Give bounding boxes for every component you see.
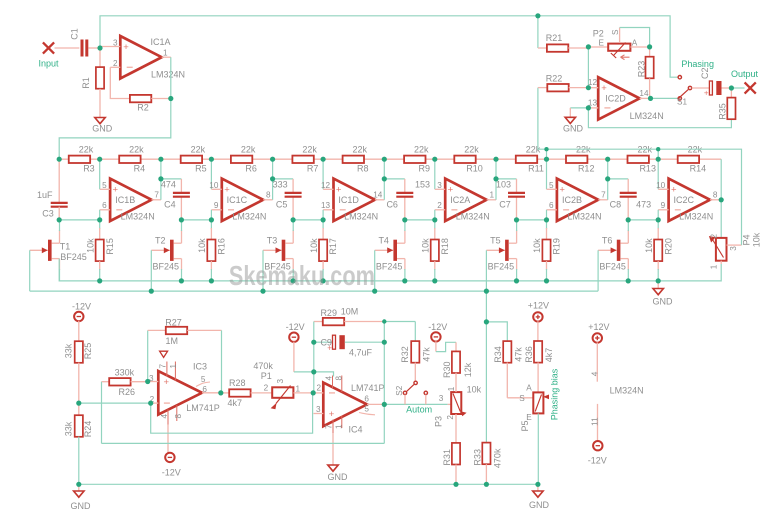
- svg-text:LM324N: LM324N: [456, 212, 490, 222]
- wire plus input drop stage 3: [322, 210, 324, 220]
- node rail A source T4: [402, 278, 407, 283]
- svg-text:6: 6: [364, 394, 369, 403]
- resistor R15 10k: [96, 220, 104, 281]
- node bias tap: [484, 319, 489, 324]
- resistor R23: [646, 47, 654, 98]
- wire minus input drop stage 1: [99, 159, 101, 189]
- svg-text:R4: R4: [134, 164, 146, 174]
- resistor R21: [538, 16, 589, 52]
- svg-text:R16: R16: [217, 238, 227, 255]
- node cap node right 2: [209, 217, 214, 222]
- svg-text:2: 2: [113, 59, 118, 68]
- svg-text:GND: GND: [328, 472, 349, 482]
- wire cap tap stage 5: [608, 179, 629, 220]
- node rail A source T6: [626, 278, 631, 283]
- wire minus input drop stage 5: [546, 159, 548, 189]
- potentiometer P2: [588, 28, 649, 60]
- node ground rail R31: [453, 482, 458, 487]
- node M4: [432, 157, 437, 162]
- capacitor C7: [508, 193, 525, 197]
- node cap node right 6: [656, 217, 661, 222]
- svg-text:1: 1: [169, 363, 178, 368]
- node O4: [493, 157, 498, 162]
- transistor T4 BF245: [393, 220, 405, 281]
- svg-text:1uF: 1uF: [37, 190, 53, 200]
- node rail B T4: [372, 289, 377, 294]
- node M1: [97, 157, 102, 162]
- supply -12V IC3: [165, 425, 174, 463]
- op-amp IC2C: [658, 179, 719, 221]
- svg-text:R31: R31: [442, 449, 452, 466]
- ground GND LFO left: [74, 484, 84, 497]
- svg-text:R34: R34: [493, 346, 503, 363]
- svg-text:-12V: -12V: [286, 322, 305, 332]
- svg-text:+: +: [164, 377, 170, 388]
- wire IC4 output net: [102, 322, 385, 444]
- wire R21 to pin12: [587, 47, 589, 88]
- node IC3 minus: [148, 401, 153, 406]
- wire minus input drop stage 4: [434, 159, 436, 189]
- svg-text:2: 2: [446, 415, 455, 420]
- svg-text:R30: R30: [442, 362, 452, 379]
- svg-text:1: 1: [489, 190, 494, 199]
- svg-text:+12V: +12V: [528, 301, 549, 311]
- potentiometer P3 10k: [448, 392, 467, 416]
- svg-text:C7: C7: [499, 200, 511, 210]
- resistor R22: [538, 84, 589, 91]
- svg-text:R36: R36: [524, 346, 534, 363]
- node rail A source T2: [179, 278, 184, 283]
- op-amp IC1C: [211, 179, 272, 221]
- svg-text:LM324N: LM324N: [610, 386, 644, 396]
- gate arrow T1: [30, 247, 48, 253]
- wire output rise stage 1: [160, 159, 162, 200]
- svg-text:12: 12: [321, 181, 331, 190]
- wire cap node stage 3: [293, 219, 323, 221]
- node R29 right: [382, 319, 386, 323]
- wire minus input drop stage 3: [322, 159, 324, 189]
- svg-text:+: +: [329, 409, 335, 420]
- node cap tap C6: [382, 176, 387, 181]
- svg-text:8: 8: [334, 375, 343, 380]
- svg-text:C6: C6: [386, 200, 398, 210]
- svg-text:22k: 22k: [191, 145, 206, 155]
- svg-text:R10: R10: [466, 164, 483, 174]
- node cap node left 2: [179, 217, 184, 222]
- svg-text:BF245: BF245: [488, 262, 515, 272]
- node cap node left 5: [514, 217, 519, 222]
- ground GND IC4: [328, 433, 349, 482]
- svg-text:2: 2: [264, 384, 269, 393]
- svg-text:S2: S2: [395, 385, 404, 395]
- node cap node left 4: [402, 217, 407, 222]
- wire spare pin 11: [597, 404, 599, 441]
- svg-text:+: +: [123, 42, 129, 53]
- transistor T1 BF245: [48, 220, 60, 281]
- svg-text:LM324N: LM324N: [121, 212, 155, 222]
- potentiometer P4 10k: [709, 236, 742, 264]
- svg-text:33k: 33k: [64, 421, 74, 436]
- op-amp IC4 LM741P: [313, 376, 384, 434]
- svg-text:C9: C9: [320, 337, 332, 347]
- svg-text:R2: R2: [137, 103, 149, 113]
- node bypass tap: [535, 13, 540, 18]
- svg-text:Output: Output: [731, 69, 759, 79]
- svg-text:GND: GND: [653, 297, 674, 307]
- svg-text:1: 1: [334, 424, 343, 429]
- resistor R14: [678, 156, 699, 163]
- capacitor C4: [173, 193, 190, 197]
- svg-text:2: 2: [316, 383, 321, 392]
- node IC3 output: [218, 390, 223, 395]
- svg-text:C1: C1: [69, 28, 79, 40]
- node IC3 plus: [145, 379, 150, 384]
- svg-text:LM324N: LM324N: [630, 111, 664, 121]
- resistor R10: [454, 156, 475, 163]
- svg-text:7: 7: [601, 190, 606, 199]
- wire cap node stage 5: [517, 219, 547, 221]
- svg-text:R6: R6: [245, 164, 257, 174]
- resistor R3: [69, 156, 90, 163]
- svg-text:P2: P2: [593, 29, 604, 39]
- svg-text:5: 5: [364, 405, 369, 414]
- wire output to switch: [651, 97, 678, 99]
- node -12V IC4: [311, 369, 316, 374]
- svg-text:P3: P3: [434, 416, 444, 427]
- svg-text:+: +: [601, 83, 607, 94]
- svg-text:C8: C8: [610, 200, 622, 210]
- svg-text:47k: 47k: [421, 347, 431, 362]
- wire plus input drop stage 5: [546, 210, 548, 220]
- svg-text:6: 6: [549, 201, 554, 210]
- svg-text:LM324N: LM324N: [567, 212, 601, 222]
- op-amp IC1A: [100, 36, 162, 79]
- svg-text:3: 3: [276, 378, 285, 383]
- svg-text:GND: GND: [563, 123, 584, 133]
- svg-text:4k7: 4k7: [544, 348, 554, 363]
- resistor R35: [727, 88, 735, 119]
- potentiometer P1 470k: [271, 386, 314, 410]
- svg-text:10k: 10k: [467, 384, 482, 394]
- port Input X: [43, 42, 54, 53]
- svg-text:1: 1: [710, 264, 719, 269]
- svg-text:4: 4: [325, 375, 334, 380]
- svg-text:IC2D: IC2D: [605, 94, 626, 104]
- node cap tap C7: [493, 176, 498, 181]
- svg-text:10k: 10k: [532, 238, 542, 253]
- node cap node left 3: [291, 217, 296, 222]
- svg-text:GND: GND: [92, 124, 113, 134]
- resistor R25 33k: [75, 321, 83, 403]
- svg-text:4k7: 4k7: [228, 398, 243, 408]
- svg-text:E: E: [526, 413, 532, 422]
- svg-text:22k: 22k: [414, 145, 429, 155]
- wire input stub: [55, 47, 80, 49]
- svg-text:-12V: -12V: [428, 322, 447, 332]
- svg-text:R20: R20: [663, 238, 673, 255]
- svg-text:C3: C3: [42, 209, 54, 219]
- resistor R7: [292, 156, 313, 163]
- svg-text:T6: T6: [602, 236, 613, 246]
- wire plus input drop stage 6: [657, 210, 659, 220]
- svg-text:A: A: [632, 38, 638, 47]
- wire gate riser T6: [597, 250, 599, 291]
- svg-text:47k: 47k: [513, 347, 523, 362]
- svg-text:10k: 10k: [421, 238, 431, 253]
- offset arrow IC3: [160, 351, 168, 357]
- resistor R4: [119, 156, 140, 163]
- svg-text:R32: R32: [400, 346, 410, 363]
- node C9 left: [311, 340, 316, 345]
- svg-text:BF245: BF245: [153, 262, 180, 272]
- supply -12V R25: [74, 312, 83, 321]
- switch S2: [403, 381, 427, 404]
- node cap node right 1: [97, 217, 102, 222]
- svg-text:LM324N: LM324N: [344, 212, 378, 222]
- node rail A R20: [656, 278, 661, 283]
- transistor T3 BF245: [282, 220, 294, 281]
- wire -12V R30 zigzag: [431, 332, 456, 351]
- wire top bypass rail: [100, 16, 678, 77]
- svg-text:P5: P5: [520, 420, 530, 431]
- svg-text:14: 14: [373, 190, 383, 199]
- resistor R20 10k: [654, 220, 662, 281]
- node cap tap C8: [605, 176, 610, 181]
- svg-text:3: 3: [437, 181, 442, 190]
- svg-text:R7: R7: [307, 164, 319, 174]
- wire -12V to pin4: [314, 372, 334, 377]
- node IC2D minus: [586, 105, 591, 110]
- svg-text:IC3: IC3: [193, 361, 207, 371]
- svg-text:8: 8: [174, 413, 183, 418]
- svg-text:10: 10: [656, 181, 666, 190]
- ground GND filter: [653, 281, 663, 295]
- svg-text:R12: R12: [578, 164, 595, 174]
- svg-text:3: 3: [439, 394, 444, 403]
- node cap node right 3: [321, 217, 326, 222]
- svg-text:5: 5: [102, 181, 107, 190]
- svg-text:R23: R23: [637, 61, 647, 78]
- wire gate riser T2: [150, 250, 152, 291]
- resistor R8: [343, 156, 364, 163]
- svg-text:R26: R26: [119, 387, 136, 397]
- wire gate riser T1: [29, 250, 31, 291]
- node C9 right: [382, 340, 387, 345]
- svg-text:4: 4: [590, 371, 599, 376]
- svg-text:470k: 470k: [253, 361, 273, 371]
- wire P2 wiper to A: [620, 28, 650, 47]
- svg-text:22k: 22k: [302, 145, 317, 155]
- resistor R24 33k: [75, 403, 83, 484]
- wire divider to IC3: [79, 402, 151, 404]
- resistor R5: [181, 156, 202, 163]
- svg-text:GND: GND: [71, 501, 92, 511]
- svg-text:33k: 33k: [64, 343, 74, 358]
- svg-text:R9: R9: [419, 164, 431, 174]
- svg-text:C2: C2: [700, 67, 710, 79]
- svg-text:10k: 10k: [309, 238, 319, 253]
- svg-text:LM324N: LM324N: [151, 69, 185, 79]
- wire output to filter rail: [59, 99, 171, 160]
- node input junction: [97, 45, 102, 50]
- svg-text:22k: 22k: [79, 145, 94, 155]
- wire output rise stage 4: [495, 159, 497, 200]
- svg-text:6: 6: [102, 201, 107, 210]
- capacitor C3: [51, 159, 68, 220]
- wire gate riser T4: [374, 250, 376, 291]
- svg-text:R3: R3: [83, 164, 95, 174]
- node rail A R16: [209, 278, 214, 283]
- svg-text:+: +: [704, 89, 709, 98]
- wire IC1A feedback loop: [110, 67, 130, 98]
- node rail A source T5: [514, 278, 519, 283]
- node ground rail P5: [535, 482, 540, 487]
- wire minus input drop stage 6: [657, 159, 659, 189]
- svg-text:153: 153: [415, 179, 430, 189]
- node divider: [76, 401, 81, 406]
- svg-text:S1: S1: [677, 98, 687, 107]
- wire IC4 out to S2: [384, 403, 447, 405]
- svg-text:E: E: [599, 39, 605, 48]
- resistor R13: [628, 156, 649, 163]
- svg-text:8: 8: [713, 190, 718, 199]
- svg-text:GND: GND: [529, 500, 550, 510]
- svg-text:6: 6: [202, 385, 207, 394]
- wire cap node stage 4: [405, 219, 435, 221]
- svg-text:7: 7: [158, 363, 167, 368]
- supply -12V spare: [593, 441, 602, 450]
- svg-text:LM324N: LM324N: [232, 212, 266, 222]
- node IC2D output: [648, 96, 653, 101]
- node ground rail R33: [484, 482, 489, 487]
- svg-text:470k: 470k: [492, 448, 502, 468]
- capacitor C2: [692, 81, 732, 98]
- svg-text:T1: T1: [60, 242, 71, 252]
- svg-text:22k: 22k: [353, 145, 368, 155]
- svg-text:3: 3: [113, 38, 118, 47]
- supply +12V R36: [533, 312, 542, 321]
- capacitor C6: [396, 193, 413, 197]
- svg-text:2: 2: [710, 233, 719, 238]
- supply +12V spare: [593, 333, 602, 342]
- transistor T2 BF245: [170, 220, 182, 281]
- svg-text:LM741P: LM741P: [186, 403, 220, 413]
- capacitor C8: [620, 193, 637, 197]
- svg-text:S: S: [519, 394, 525, 403]
- node rail A R19: [544, 278, 549, 283]
- node O2: [270, 157, 275, 162]
- svg-text:LM741P: LM741P: [351, 383, 385, 393]
- svg-text:10k: 10k: [85, 238, 95, 253]
- wire output rise stage 6: [720, 159, 722, 238]
- svg-text:Phasing bias: Phasing bias: [550, 368, 560, 420]
- svg-text:R8: R8: [357, 164, 369, 174]
- svg-text:IC1D: IC1D: [338, 195, 359, 205]
- svg-text:1: 1: [163, 49, 168, 58]
- node R2 output junction: [168, 96, 173, 101]
- svg-text:R25: R25: [83, 343, 93, 360]
- gate arrow T2: [151, 247, 170, 253]
- svg-text:T2: T2: [155, 236, 166, 246]
- switch S1: [678, 76, 692, 101]
- svg-text:1: 1: [296, 384, 301, 393]
- wire bottom ground rail: [79, 483, 538, 485]
- resistor R36 4k7: [534, 321, 542, 392]
- svg-text:4: 4: [160, 413, 169, 418]
- svg-text:-12V: -12V: [72, 302, 91, 312]
- wire plus input drop stage 1: [99, 210, 101, 220]
- wire output rise stage 3: [383, 159, 385, 200]
- svg-text:C4: C4: [164, 200, 176, 210]
- svg-text:R22: R22: [546, 73, 563, 83]
- svg-text:LM324N: LM324N: [679, 212, 713, 222]
- wire output rise stage 2: [272, 159, 274, 200]
- svg-text:-12V: -12V: [588, 455, 607, 465]
- node rail A source T3: [291, 278, 296, 283]
- svg-text:Autom: Autom: [406, 405, 432, 415]
- svg-text:22k: 22k: [129, 145, 144, 155]
- svg-text:S: S: [611, 29, 620, 35]
- resistor R31: [452, 414, 460, 484]
- wire IC3 pin2 to P1 node: [151, 393, 313, 433]
- gate arrow T6: [598, 247, 617, 253]
- svg-text:R27: R27: [165, 318, 182, 328]
- wire cap node stage 6: [628, 219, 658, 221]
- wire IC2D feedback: [588, 108, 731, 128]
- node rail A R17: [321, 278, 326, 283]
- svg-text:BF245: BF245: [60, 252, 87, 262]
- svg-text:R14: R14: [690, 164, 707, 174]
- wire spare pin 4: [596, 342, 598, 381]
- wire bias to R34: [486, 322, 507, 341]
- svg-text:A: A: [526, 384, 532, 393]
- node cap tap C4: [158, 176, 163, 181]
- transistor T5 BF245: [505, 220, 516, 281]
- wire M5 riser: [546, 149, 548, 159]
- capacitor C5: [285, 193, 302, 197]
- wire gate riser T5: [485, 250, 487, 291]
- svg-text:1M: 1M: [166, 336, 179, 346]
- resistor R17 10k: [319, 220, 327, 281]
- svg-text:R18: R18: [440, 238, 450, 255]
- resistor R9: [404, 156, 425, 163]
- resistor R33 470k: [482, 291, 490, 484]
- node P1: [57, 157, 62, 162]
- svg-text:R29: R29: [320, 308, 337, 318]
- wire cap tap stage 2: [273, 179, 294, 220]
- svg-text:R11: R11: [528, 164, 544, 174]
- svg-text:3: 3: [729, 246, 738, 251]
- svg-text:14: 14: [639, 89, 649, 98]
- svg-text:2: 2: [437, 201, 442, 210]
- wire cap tap stage 3: [384, 179, 405, 220]
- svg-text:C5: C5: [276, 200, 288, 210]
- resistor R16 10k: [207, 220, 215, 281]
- ground GND LFO right: [533, 484, 543, 497]
- ground GND input: [95, 118, 105, 124]
- wire plus input drop stage 2: [210, 210, 212, 220]
- svg-text:22k: 22k: [241, 145, 256, 155]
- wire cap tap stage 4: [496, 179, 517, 220]
- gate arrow T4: [375, 247, 394, 253]
- svg-text:BF245: BF245: [599, 262, 626, 272]
- svg-text:R17: R17: [328, 238, 338, 255]
- wire cap node stage 2: [181, 219, 211, 221]
- wire R34 to P5 wiper: [507, 397, 534, 399]
- wire P4 wiper feedback: [538, 88, 742, 246]
- wire cap tap stage 1: [161, 179, 182, 220]
- node P2 right: [647, 44, 652, 49]
